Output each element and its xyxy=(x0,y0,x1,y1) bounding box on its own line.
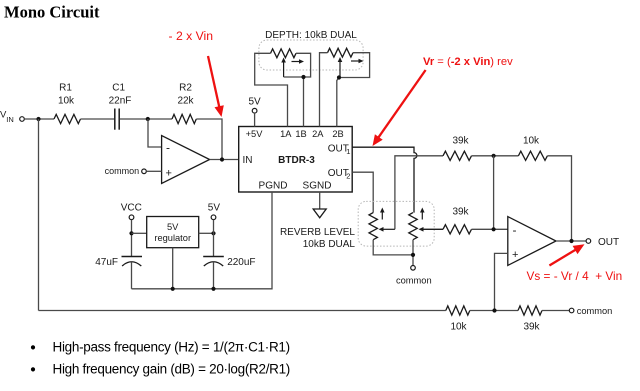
wire 39k to common xyxy=(542,310,569,312)
terminal common (op-amp U1 +) xyxy=(105,166,147,176)
terminal common (bottom right) xyxy=(569,306,612,316)
svg-text:common: common xyxy=(396,275,432,285)
svg-text:1A: 1A xyxy=(280,129,292,139)
svg-text:39k: 39k xyxy=(452,136,469,147)
wire common to op-amp U1 + input xyxy=(146,170,161,172)
terminal VIN xyxy=(0,110,24,124)
wire regulator to 5V node xyxy=(199,232,214,234)
svg-text:common: common xyxy=(105,166,140,176)
red arrow to output node xyxy=(208,56,220,109)
wire op-amp U3 output to OUT xyxy=(556,240,586,242)
wire VCC to regulator xyxy=(132,232,147,234)
node C junction xyxy=(492,154,496,158)
svg-text:2A: 2A xyxy=(312,129,324,139)
terminal VCC xyxy=(121,202,142,219)
svg-text:39k: 39k xyxy=(452,207,469,218)
svg-text:+: + xyxy=(512,249,518,261)
wire lower 39k to op-amp U3 inverting input xyxy=(472,228,508,230)
P2b direction arrow xyxy=(421,211,423,220)
resistor 39k (lower) xyxy=(443,207,472,234)
svg-text:BTDR-3: BTDR-3 xyxy=(278,155,315,166)
wire OUT2 to pot P2a top xyxy=(352,172,373,212)
wire P1a right end + wiper tie to pin 1B xyxy=(284,53,311,77)
terminal 5V (BTDR supply) xyxy=(248,97,261,114)
svg-text:- 2 x Vin: - 2 x Vin xyxy=(169,29,213,43)
svg-text:5V: 5V xyxy=(208,202,221,213)
svg-text:R2: R2 xyxy=(179,83,192,94)
bottom rail wire xyxy=(39,310,446,312)
svg-text:220uF: 220uF xyxy=(227,257,255,268)
svg-text:+5V: +5V xyxy=(246,129,264,139)
wire pot bottoms to common xyxy=(373,240,413,266)
terminal common (reverb pots) xyxy=(396,266,432,286)
svg-text:10k: 10k xyxy=(450,321,467,332)
svg-text:regulator: regulator xyxy=(154,233,191,243)
wire R1 to C1 xyxy=(81,118,115,120)
node pot commons xyxy=(411,253,415,257)
capacitor C1 xyxy=(109,83,132,130)
bullet list xyxy=(31,339,290,376)
resistor 10k (bottom) xyxy=(446,306,470,332)
svg-text:SGND: SGND xyxy=(303,181,332,192)
svg-text:REVERB LEVEL: REVERB LEVEL xyxy=(280,227,355,238)
ground rail xyxy=(132,192,273,289)
wire 10k to 39k xyxy=(470,310,518,312)
P2a direction arrow xyxy=(381,211,383,220)
wire SGND down xyxy=(319,192,321,209)
node A (input junction) xyxy=(36,117,40,121)
svg-text:R1: R1 xyxy=(59,83,72,94)
svg-text:common: common xyxy=(577,306,613,316)
svg-text:22k: 22k xyxy=(177,96,194,107)
wire node B down to op-amp inverting input xyxy=(148,119,162,147)
wire regulator ground xyxy=(172,248,174,289)
reverb pots dotted outline xyxy=(358,201,434,246)
potentiometer P2a (reverb level 1) xyxy=(369,213,377,240)
svg-text:10k: 10k xyxy=(58,96,75,107)
svg-text:10kB DUAL: 10kB DUAL xyxy=(303,239,356,250)
wire VCC down xyxy=(131,220,133,257)
node op-amp output junction xyxy=(220,157,224,161)
red arrow to OUT node xyxy=(549,249,577,266)
wire 220uF to rail xyxy=(213,261,215,289)
potentiometer P1a (depth 1) xyxy=(271,49,297,58)
P1a wiper xyxy=(283,61,285,78)
op-amp U1 xyxy=(162,136,210,184)
wire OUT1 to pot P2b top (with hop) xyxy=(352,147,417,212)
node P1b wiper junction xyxy=(337,75,341,79)
svg-text:2: 2 xyxy=(346,172,350,181)
wire op-amp U1 output to BTDR-3 IN xyxy=(210,159,239,161)
svg-text:47uF: 47uF xyxy=(95,257,118,268)
wire R2 to output node xyxy=(196,119,222,160)
P1a direction arrow xyxy=(292,61,302,63)
wire 10k to output node xyxy=(547,156,571,241)
wire node A down to bottom rail xyxy=(38,119,40,311)
depth pots dotted outline xyxy=(259,40,363,70)
red arrow to OUT1 wire xyxy=(377,70,425,139)
capacitor 47uF xyxy=(95,257,142,268)
svg-text:PGND: PGND xyxy=(259,181,288,192)
node output junction xyxy=(569,239,573,243)
svg-text:5V: 5V xyxy=(167,222,179,232)
node bottom junction xyxy=(492,308,496,312)
node inverting input junction xyxy=(492,227,496,231)
resistor R2 xyxy=(172,83,196,124)
svg-text:22nF: 22nF xyxy=(109,96,132,107)
reverb module U2 BTDR-3 xyxy=(239,127,353,193)
wire P2a wiper to 39k (top) xyxy=(395,156,443,230)
wire 39k to node C xyxy=(472,155,519,157)
svg-text:Mono Circuit: Mono Circuit xyxy=(4,3,100,22)
wire + input to bottom rail xyxy=(495,253,508,310)
node B junction xyxy=(146,117,150,121)
svg-text:-: - xyxy=(513,223,517,237)
svg-text:VCC: VCC xyxy=(121,202,142,213)
svg-text:Vr = (-2 x Vin) rev: Vr = (-2 x Vin) rev xyxy=(423,56,513,68)
node rail 220uF xyxy=(211,287,215,291)
capacitor 220uF xyxy=(203,257,255,268)
node 5V junction xyxy=(211,231,215,235)
P2b wiper to 39k (lower) xyxy=(420,228,443,230)
svg-text:High-pass frequency (Hz) = 1/(: High-pass frequency (Hz) = 1/(2π·C1·R1) xyxy=(53,339,290,354)
wire C1 to node B xyxy=(120,118,172,120)
potentiometer P2b (reverb level 2) xyxy=(409,213,417,240)
wire 5V terminal to pin +5V xyxy=(254,113,256,127)
resistor 10k (feedback) xyxy=(518,136,547,161)
svg-text:2B: 2B xyxy=(332,129,343,139)
resistor 39k (bottom) xyxy=(518,306,542,332)
resistor R1 xyxy=(54,83,81,124)
svg-text:-: - xyxy=(166,141,170,155)
P1b direction arrow xyxy=(351,60,361,62)
svg-text:5V: 5V xyxy=(248,97,261,108)
node P1a wiper junction xyxy=(301,75,305,79)
terminal OUT xyxy=(586,237,619,248)
wire P1b left end to pin 2A xyxy=(320,53,328,127)
wire P1a left end to pin 1A xyxy=(255,53,288,126)
wire P1b right end + wiper tie to pin 2B xyxy=(340,53,370,78)
regulator U4 xyxy=(147,217,199,248)
op-amp U3 xyxy=(508,217,556,266)
svg-text:1: 1 xyxy=(346,147,350,156)
svg-text:IN: IN xyxy=(6,115,14,124)
svg-text:IN: IN xyxy=(243,155,253,166)
resistor 39k (top) xyxy=(443,136,472,161)
wire 5V terminal down xyxy=(213,220,215,257)
wire node C down to inverting node xyxy=(493,156,495,230)
svg-text:High frequency gain (dB) = 20·: High frequency gain (dB) = 20·log(R2/R1) xyxy=(53,361,291,376)
svg-text:1B: 1B xyxy=(295,129,306,139)
wire VIN to node A xyxy=(24,118,54,120)
wire 47uF to rail xyxy=(131,261,133,289)
svg-text:OUT: OUT xyxy=(598,237,619,248)
svg-text:C1: C1 xyxy=(112,83,125,94)
P1b wiper xyxy=(339,60,341,78)
svg-text:+: + xyxy=(166,168,172,180)
svg-text:39k: 39k xyxy=(523,321,540,332)
potentiometer P1b (depth 2) xyxy=(328,48,354,57)
node rail regulator xyxy=(171,287,175,291)
svg-text:DEPTH: 10kB DUAL: DEPTH: 10kB DUAL xyxy=(265,30,357,41)
node VCC junction xyxy=(129,231,133,235)
svg-text:Vs = - Vr / 4 + Vin: Vs = - Vr / 4 + Vin xyxy=(527,269,623,283)
terminal 5V (regulator output) xyxy=(208,202,221,219)
ground (SGND) xyxy=(313,209,326,218)
svg-text:10k: 10k xyxy=(523,136,540,147)
